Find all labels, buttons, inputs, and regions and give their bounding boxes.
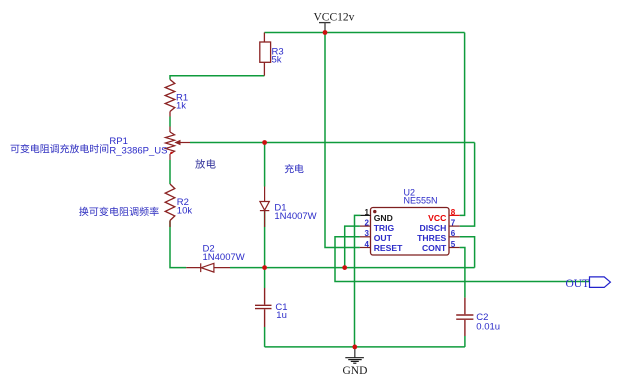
pin 1 stub bbox=[360, 214, 370, 216]
wire D1 column top bbox=[264, 143, 266, 187]
pin-1 marker dot bbox=[373, 210, 376, 213]
svg-text:8: 8 bbox=[451, 208, 456, 217]
annotation adjust charge/discharge time bbox=[11, 144, 109, 153]
svg-text:0.01u: 0.01u bbox=[476, 322, 500, 333]
pin 2 stub bbox=[360, 225, 371, 227]
svg-text:TRIG: TRIG bbox=[374, 223, 395, 233]
wire GND column from pin 1 bbox=[355, 215, 361, 347]
annotation change pot to tune frequency bbox=[79, 207, 159, 216]
svg-text:CONT: CONT bbox=[422, 243, 447, 253]
svg-text:6: 6 bbox=[451, 229, 456, 238]
diode D2 bbox=[186, 263, 230, 272]
svg-text:5k: 5k bbox=[272, 54, 282, 65]
wire R2 bottom to D2 bbox=[170, 221, 186, 268]
pin 8 stub bbox=[449, 214, 460, 216]
annotation charge bbox=[285, 164, 304, 173]
wire VCC column to RESET bbox=[325, 33, 360, 248]
junction wiper/D1 node bbox=[262, 140, 267, 145]
svg-text:5: 5 bbox=[451, 240, 456, 249]
svg-text:THRES: THRES bbox=[417, 233, 446, 243]
resistor R2 bbox=[165, 184, 175, 227]
port OUT flag bbox=[590, 277, 611, 288]
svg-text:NE555N: NE555N bbox=[404, 196, 438, 206]
resistor R1 bbox=[165, 80, 175, 133]
svg-text:1k: 1k bbox=[176, 101, 186, 112]
svg-text:1N4007W: 1N4007W bbox=[274, 211, 316, 222]
pin 3 stub bbox=[360, 236, 371, 238]
junction TRIG column node bbox=[342, 265, 347, 270]
svg-text:OUT: OUT bbox=[374, 233, 393, 243]
svg-text:DISCH: DISCH bbox=[420, 223, 447, 233]
power port VCC12v bar bbox=[319, 22, 331, 24]
wire D1 to C1 node bbox=[264, 211, 266, 288]
wire THRES loop bbox=[460, 237, 475, 268]
svg-text:3: 3 bbox=[365, 229, 370, 238]
wire R3 bottom to R1 top bbox=[170, 76, 264, 80]
power port VCC12v stem bbox=[324, 23, 326, 33]
svg-text:OUT: OUT bbox=[566, 278, 590, 290]
wire TRIG column bbox=[345, 226, 360, 268]
potentiometer RP1 bbox=[165, 132, 190, 160]
wire OUT net bbox=[335, 237, 590, 282]
svg-text:GND: GND bbox=[374, 213, 393, 223]
svg-text:2: 2 bbox=[365, 219, 370, 228]
wire RP1 wiper to DISCH net bbox=[190, 142, 475, 144]
svg-text:VCC12v: VCC12v bbox=[314, 11, 355, 23]
junction ground node bbox=[352, 345, 357, 350]
pin 6 stub bbox=[449, 236, 460, 238]
wire VCC drop to pin 8 bbox=[460, 33, 465, 216]
junction C1/D1/TRIG node bbox=[262, 265, 267, 270]
svg-text:10k: 10k bbox=[177, 205, 193, 216]
wire bottom ground rail bbox=[265, 346, 465, 348]
svg-text:4: 4 bbox=[365, 240, 370, 249]
pin 7 stub bbox=[449, 225, 460, 227]
wire DISCH loop bbox=[460, 143, 475, 227]
diode D1 bbox=[260, 187, 269, 228]
op-amp U2 NE555N body bbox=[371, 208, 450, 256]
junction at VCC rail bbox=[323, 30, 328, 35]
resistor R3 bbox=[260, 33, 271, 76]
svg-text:R_3386P_US: R_3386P_US bbox=[109, 145, 167, 156]
wire C1 bottom bbox=[264, 327, 266, 347]
wire TRIG/THRES net horizontal bbox=[230, 267, 475, 269]
pin 4 stub bbox=[360, 247, 371, 249]
svg-text:RESET: RESET bbox=[374, 243, 403, 253]
ground symbol bars bbox=[345, 358, 364, 364]
svg-text:GND: GND bbox=[343, 365, 368, 377]
svg-text:1: 1 bbox=[365, 208, 370, 217]
wire RP1-R2 link bbox=[169, 160, 171, 184]
wire CONT to C2 bbox=[460, 248, 465, 298]
svg-text:VCC: VCC bbox=[428, 213, 446, 223]
svg-text:7: 7 bbox=[451, 219, 456, 228]
capacitor C2 bbox=[456, 298, 473, 336]
wire R1-RP1 link bbox=[169, 117, 171, 127]
capacitor C1 bbox=[255, 288, 272, 327]
annotation discharge bbox=[195, 159, 215, 169]
wire C2 bottom bbox=[464, 336, 466, 347]
svg-text:1N4007W: 1N4007W bbox=[203, 252, 245, 263]
pin 5 stub bbox=[449, 247, 460, 249]
svg-text:1u: 1u bbox=[276, 310, 287, 321]
ground symbol stem bbox=[354, 347, 356, 357]
wire VCC top rail bbox=[264, 32, 464, 34]
